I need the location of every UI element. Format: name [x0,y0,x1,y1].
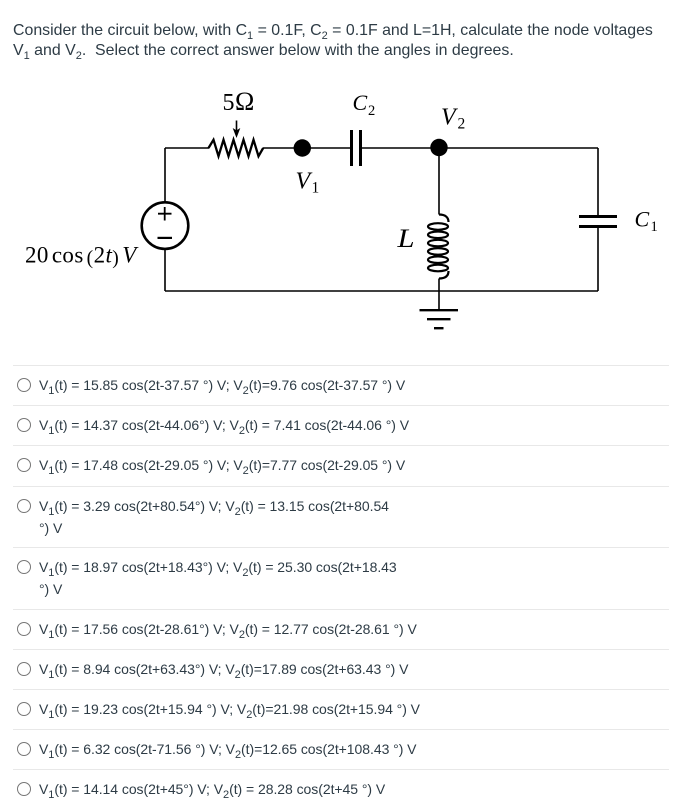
inductor L [439,215,449,223]
svg-text:5Ω: 5Ω [223,87,255,116]
wire V2 to inductor [438,148,440,215]
svg-text:C: C [353,90,368,115]
resistor R 5ohm [209,140,264,156]
svg-text:V: V [441,105,458,131]
wire left vertical lower [164,249,166,291]
question text [13,21,653,62]
svg-text:20cos(2t)V: 20cos(2t)V [25,243,139,270]
svg-text:1: 1 [651,219,658,235]
wire left vertical upper [164,148,166,203]
voltage source Vs [142,202,189,249]
wire bottom [165,290,598,292]
wire C2 to top-right corner [362,147,598,149]
svg-text:2: 2 [368,103,375,119]
capacitor C2 [352,130,361,166]
svg-text:C: C [635,207,650,232]
svg-text:L: L [396,225,414,253]
wire right vertical lower [597,228,599,291]
node V1 [294,139,311,156]
arrow to resistor [236,121,238,131]
svg-text:1: 1 [312,180,320,197]
wire right vertical upper [597,148,599,215]
node V2 [430,139,447,156]
svg-text:2: 2 [458,116,466,133]
wire resistor to C2 [263,147,350,149]
capacitor C1 [579,217,617,227]
svg-text:V: V [296,169,313,195]
answer options [13,365,669,396]
ground [438,291,440,309]
wire top-left segment [165,147,209,149]
wire inductor to bottom [438,279,440,292]
